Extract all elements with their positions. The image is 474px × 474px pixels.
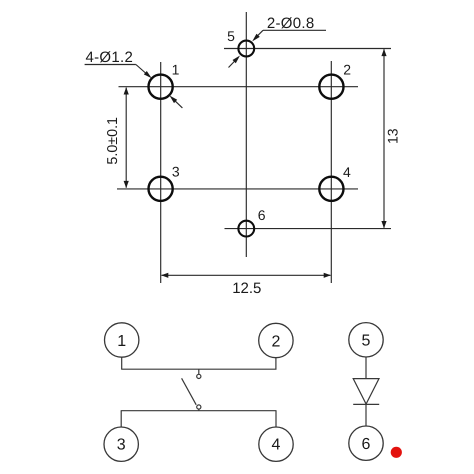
switch SW1 upper contact: [197, 374, 201, 378]
leader arrowhead at hole 5 upper-right: [252, 34, 260, 42]
schematic pin 4 terminal: [259, 427, 293, 461]
hole 6 (Ø0.8): [238, 221, 254, 237]
diode D1 cathode bar: [353, 403, 379, 405]
svg-text:3: 3: [117, 436, 126, 453]
dimension 5.0±0.1 between holes 1 and 3: [124, 87, 129, 188]
hole 2 (Ø1.2): [319, 75, 343, 99]
dimension 12.5 between holes 3 and 4 columns: [161, 273, 331, 278]
svg-text:4-Ø1.2: 4-Ø1.2: [85, 49, 133, 66]
center line vertical through holes 2,4: [330, 61, 332, 283]
svg-text:1: 1: [117, 333, 126, 350]
hole 3 (Ø1.2): [149, 177, 173, 201]
diode D1 (LED) triangle: [353, 379, 379, 404]
wire pin 2 down to top rail: [275, 358, 277, 370]
svg-text:5: 5: [227, 28, 235, 44]
wire bottom rail to pin 4: [275, 411, 277, 427]
wire top rail: [121, 368, 276, 370]
wire bottom rail to pin 3: [120, 411, 122, 427]
svg-text:12.5: 12.5: [232, 280, 261, 297]
svg-text:4: 4: [272, 436, 281, 453]
dimension 13 between hole 5 and hole 6 rows: [381, 49, 386, 228]
wire pin 5 to diode anode: [365, 357, 367, 379]
center line horizontal through hole 5 extended to dim 13: [224, 48, 391, 50]
center line vertical through holes 1,3: [160, 62, 162, 283]
wire pin 1 down to top rail: [121, 357, 123, 369]
wire bottom rail: [121, 410, 277, 412]
schematic pin 5 terminal: [349, 323, 383, 357]
schematic pin 2 terminal: [259, 323, 293, 357]
svg-text:2: 2: [271, 333, 280, 350]
svg-text:5.0±0.1: 5.0±0.1: [105, 117, 121, 165]
switch SW1 lower contact stub: [198, 409, 200, 411]
hole 4 (Ø1.2): [319, 177, 343, 201]
svg-text:2: 2: [343, 62, 351, 78]
svg-text:3: 3: [172, 164, 180, 180]
schematic pin 3 terminal: [104, 427, 138, 461]
switch SW1 upper contact stub: [198, 369, 200, 374]
wire diode cathode to pin 6: [365, 404, 367, 426]
svg-text:2-Ø0.8: 2-Ø0.8: [267, 15, 315, 32]
center line horizontal through holes 1,2: [119, 86, 359, 88]
hole 1 (Ø1.2): [149, 75, 173, 99]
center line horizontal through hole 6 extended to dim 13: [225, 228, 392, 230]
svg-text:6: 6: [362, 436, 371, 453]
switch SW1 lower contact: [197, 405, 201, 409]
schematic pin 1 terminal: [105, 323, 139, 357]
red indicator dot: [391, 447, 402, 458]
leader line 4-Ø1.2: [85, 65, 150, 77]
schematic pin 6 terminal: [349, 426, 383, 460]
second arrow pointing at hole 1 from lower-right: [173, 98, 183, 108]
center line vertical through holes 5,6: [245, 12, 247, 257]
second arrow pointing at hole 5 from lower-left: [229, 59, 237, 68]
leader line 2-Ø0.8: [255, 30, 327, 39]
leader arrowhead at hole 1 upper-left: [144, 71, 152, 78]
svg-text:6: 6: [258, 207, 266, 223]
switch SW1 lever: [182, 378, 197, 405]
svg-text:5: 5: [362, 333, 371, 350]
svg-text:4: 4: [343, 164, 351, 180]
hole 5 (Ø0.8): [238, 41, 254, 57]
svg-text:13: 13: [384, 128, 400, 144]
svg-text:1: 1: [172, 62, 180, 78]
center line horizontal through holes 3,4: [117, 188, 358, 190]
